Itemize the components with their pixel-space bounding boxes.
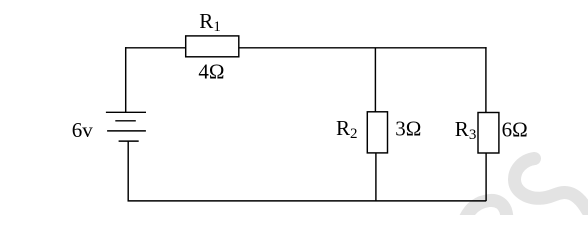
battery B1 plate: short bottom (-) xyxy=(119,140,139,142)
battery B1 plate: short (-) xyxy=(115,120,136,122)
wire: left vertical down to battery top plate xyxy=(125,47,127,112)
battery B1 plate: long (+) xyxy=(107,130,146,132)
wire: top-left horizontal (battery + to R1 left) xyxy=(125,47,186,49)
svg-text:R1: R1 xyxy=(199,9,221,35)
svg-text:4Ω: 4Ω xyxy=(198,60,224,84)
svg-text:6v: 6v xyxy=(72,118,94,142)
wire: top horizontal (R1 right to right branch corner) xyxy=(239,47,487,49)
resistor R2 (box) xyxy=(367,112,387,153)
svg-text:R3: R3 xyxy=(455,117,477,143)
wire: R2 branch vertical top xyxy=(374,48,376,112)
wire: R3 branch vertical bottom xyxy=(485,153,487,201)
battery B1 plate: long top (+) xyxy=(106,111,146,113)
wire: left vertical from battery bottom plate down xyxy=(127,141,129,201)
watermark swoosh (background) xyxy=(464,159,588,222)
wire: right branch vertical top (to R3) xyxy=(485,47,487,112)
wire: R2 branch vertical bottom xyxy=(375,153,377,201)
svg-text:3Ω: 3Ω xyxy=(395,117,421,141)
resistor R3 (box) xyxy=(478,113,499,154)
svg-text:6Ω: 6Ω xyxy=(502,118,528,142)
wire: bottom horizontal return xyxy=(128,200,487,202)
resistor R1 (box) xyxy=(186,36,239,57)
svg-text:R2: R2 xyxy=(336,116,358,142)
